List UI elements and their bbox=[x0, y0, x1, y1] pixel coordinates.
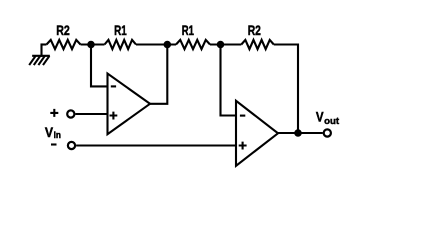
wire bbox=[81, 43, 105, 45]
wire op-amp U1 output up to junction 2 bbox=[150, 45, 167, 104]
label Vout bbox=[316, 109, 340, 127]
wire from junction 3 down to op-amp U2 inverting input bbox=[221, 45, 237, 116]
wire op-amp U2 output to terminal Vout bbox=[278, 132, 323, 134]
label Vin bbox=[45, 124, 61, 141]
plus sign U1 bbox=[110, 112, 118, 120]
wire from junction 1 down to op-amp U1 inverting input bbox=[91, 45, 108, 87]
minus sign U1 bbox=[111, 85, 116, 87]
minus sign terminal Vin- bbox=[51, 143, 57, 145]
wire bbox=[210, 43, 241, 45]
minus sign U2 bbox=[240, 115, 245, 117]
op-amp U2 bbox=[236, 101, 278, 166]
wire terminal Vin+ to op-amp U1 non-inverting input bbox=[75, 113, 107, 115]
svg-text:R1: R1 bbox=[182, 22, 194, 38]
terminal Vin- bbox=[68, 142, 75, 149]
svg-text:out: out bbox=[324, 116, 340, 127]
resistor R2 bbox=[47, 40, 81, 49]
wire bbox=[42, 43, 47, 45]
terminal Vout bbox=[324, 129, 331, 136]
ground bbox=[30, 45, 49, 65]
svg-text:R1: R1 bbox=[114, 22, 127, 38]
svg-text:R2: R2 bbox=[56, 22, 70, 38]
svg-text:V: V bbox=[45, 124, 54, 140]
node dot junction 3 bbox=[217, 41, 225, 49]
plus sign U2 bbox=[239, 142, 247, 150]
resistor R2 (second) bbox=[241, 40, 273, 49]
wire terminal Vin- to op-amp U2 non-inverting input bbox=[76, 144, 236, 146]
node dot junction 1 bbox=[87, 41, 95, 49]
svg-text:in: in bbox=[54, 130, 62, 141]
terminal Vin+ bbox=[67, 110, 74, 117]
svg-text:R2: R2 bbox=[248, 22, 261, 38]
resistor R1 bbox=[105, 40, 137, 49]
node dot junction 2 bbox=[164, 41, 172, 49]
svg-text:V: V bbox=[316, 109, 324, 125]
resistor R1 (second) bbox=[176, 40, 210, 49]
wire feedback from R2 down to output node bbox=[274, 45, 298, 134]
op-amp U1 bbox=[108, 74, 151, 135]
plus sign terminal Vin+ bbox=[50, 109, 58, 117]
node dot output junction bbox=[294, 129, 302, 137]
wire bbox=[136, 43, 176, 45]
